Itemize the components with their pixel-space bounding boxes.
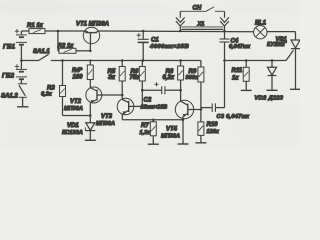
node A junction xyxy=(57,30,60,33)
chassis terminal of R11 xyxy=(241,89,252,91)
wire: VT2 base to VT3 collector line xyxy=(102,94,122,96)
external device CH wire with switch xyxy=(180,7,224,11)
junction VD2 top xyxy=(271,59,274,62)
resistor R4 xyxy=(87,61,93,88)
svg-text:0,047мк: 0,047мк xyxy=(229,44,251,50)
gate line to VS1 xyxy=(225,60,287,62)
junction R5 top xyxy=(121,59,124,62)
chassis terminal of VD2 xyxy=(267,89,278,91)
label R3 6,2k xyxy=(41,86,55,98)
transistor VT2 xyxy=(86,87,102,116)
label C2 value xyxy=(141,98,168,111)
chassis terminal of VT4 emitter xyxy=(178,143,189,145)
junction battery mid xyxy=(20,59,23,62)
label VD1 KS133A xyxy=(62,123,83,136)
zener diode VD1 xyxy=(85,116,95,140)
resistor R6 xyxy=(139,61,145,107)
chassis terminal of VS1 xyxy=(290,88,300,90)
top rail: VT1 collector to lamp xyxy=(99,30,254,33)
battery GB2 xyxy=(16,61,27,84)
wire: VT4 base to divider xyxy=(194,109,201,111)
svg-text:R2 1к: R2 1к xyxy=(58,44,75,50)
label R11 1k xyxy=(232,68,243,81)
chassis terminal of VD1 xyxy=(85,139,96,141)
junction VT4 base node xyxy=(200,108,203,111)
connector X1 link wires xyxy=(182,27,224,30)
svg-text:КУ201Г: КУ201Г xyxy=(267,42,287,48)
svg-text:VD1: VD1 xyxy=(67,123,79,129)
resistor R2 xyxy=(58,48,76,53)
svg-text:МП38А: МП38А xyxy=(64,106,83,112)
svg-text:75к: 75к xyxy=(130,75,141,81)
label R9 360k xyxy=(186,69,199,81)
battery GB1 xyxy=(16,31,27,61)
plus sign C1 xyxy=(137,33,141,37)
svg-text:1,2к: 1,2к xyxy=(140,130,152,136)
svg-text:СН: СН xyxy=(193,6,202,12)
svg-text:R10: R10 xyxy=(207,122,219,128)
svg-text:6,2к: 6,2к xyxy=(163,75,175,81)
capacitor C1 xyxy=(138,31,149,61)
svg-text:ГБ2: ГБ2 xyxy=(2,73,14,80)
label VT3 MP38A xyxy=(96,114,115,127)
chassis terminal of R10 xyxy=(195,142,206,144)
svg-text:6,2к: 6,2к xyxy=(41,92,53,98)
resistor R9 xyxy=(198,61,204,122)
svg-text:ГБ1: ГБ1 xyxy=(3,44,15,51)
resistor R11 xyxy=(243,61,249,91)
junction X1 right / C4 xyxy=(223,30,226,33)
wire: R2 to VT1 base xyxy=(76,50,90,52)
svg-text:100: 100 xyxy=(73,74,84,80)
label VT2 MP38A xyxy=(64,99,83,112)
thyristor VS1 xyxy=(286,40,300,89)
resistor R1 xyxy=(29,29,45,34)
junction R8 top xyxy=(179,59,182,62)
label R8 6,2k xyxy=(163,69,175,81)
label R10 120k xyxy=(207,122,220,135)
junction C4 bottom / gate line xyxy=(223,59,226,62)
wire: VT3 base riser xyxy=(134,105,143,107)
svg-text:КС133А: КС133А xyxy=(62,130,83,136)
svg-text:ЅА1.2: ЅА1.2 xyxy=(1,93,18,99)
junction VT4 emitter xyxy=(182,119,185,122)
wire: R3 to VD1 node xyxy=(63,115,91,117)
svg-text:Х1: Х1 xyxy=(197,21,205,27)
wire: R1 to node A xyxy=(45,30,58,32)
scan background tint xyxy=(0,0,312,148)
plus sign GB1 xyxy=(15,29,20,33)
svg-text:VT3: VT3 xyxy=(101,114,113,120)
svg-text:VT2: VT2 xyxy=(70,99,82,105)
svg-text:10мк×10В: 10мк×10В xyxy=(141,105,168,111)
switch SA1.1 xyxy=(21,54,48,60)
svg-text:МП38А: МП38А xyxy=(161,134,180,140)
svg-text:ЅА1.1: ЅА1.1 xyxy=(33,49,50,55)
resistor R7 xyxy=(150,120,156,144)
wire: right edge down to VS1 anode xyxy=(295,32,297,40)
resistor R3 xyxy=(60,61,66,116)
junction R2/base xyxy=(89,50,92,53)
svg-text:С2: С2 xyxy=(144,98,152,104)
junction VT2 base / R5 xyxy=(121,94,124,97)
svg-text:4600мк×25В: 4600мк×25В xyxy=(149,44,189,50)
connector pin left (chevron) xyxy=(176,11,185,31)
wire: VT3 emitter row xyxy=(122,119,183,121)
label R6 75k xyxy=(130,69,141,81)
wire: lamp to right edge xyxy=(267,31,296,33)
transistor VT1 xyxy=(83,27,99,51)
diode VD2 xyxy=(268,61,277,90)
svg-text:R7: R7 xyxy=(141,123,149,129)
lamp EL1 xyxy=(254,26,267,39)
svg-text:МП38А: МП38А xyxy=(96,121,115,127)
svg-text:R1 1к: R1 1к xyxy=(27,23,44,29)
svg-text:120к: 120к xyxy=(207,129,220,135)
svg-text:VT4: VT4 xyxy=(166,127,178,133)
resistor R5 xyxy=(119,61,125,100)
junction R3 top xyxy=(61,59,64,62)
chassis terminal of R7 xyxy=(148,143,159,145)
svg-text:R11: R11 xyxy=(232,68,243,74)
resistor R8 xyxy=(178,61,184,102)
svg-text:EL1: EL1 xyxy=(255,21,267,27)
svg-text:VT1 МП38А: VT1 МП38А xyxy=(76,21,109,27)
svg-text:Зк: Зк xyxy=(108,75,116,81)
junction C2 left xyxy=(141,89,144,92)
connector pin right (chevron) xyxy=(220,11,229,31)
capacitor C3 xyxy=(201,61,225,112)
label R7 1,2k xyxy=(140,123,152,136)
resistor R10 xyxy=(198,122,204,142)
junction C1 top xyxy=(142,30,145,33)
chassis terminal of SA1.2 xyxy=(17,106,29,108)
switch SA1.2 xyxy=(18,84,27,107)
junction C1/R6 xyxy=(142,59,145,62)
wire: node A to VT1 emitter xyxy=(58,30,85,32)
svg-text:С3 0,047мк: С3 0,047мк xyxy=(217,114,251,120)
junction C2 right / VT4 collector xyxy=(179,89,182,92)
plus sign C2 xyxy=(154,82,158,86)
capacitor C2 xyxy=(142,86,180,94)
label VT4 MP38A xyxy=(161,127,180,140)
svg-text:R4*: R4* xyxy=(72,68,83,74)
svg-text:С1: С1 xyxy=(151,38,159,44)
wire: GB1 top to R1 xyxy=(21,30,29,32)
junction R11 top xyxy=(245,59,248,62)
svg-text:VD2 Д223: VD2 Д223 xyxy=(255,95,284,101)
label C1 value xyxy=(149,38,189,51)
label VS1 KU201G xyxy=(267,37,288,48)
plus sign GB2 xyxy=(15,64,20,68)
transistor VT3 xyxy=(117,98,134,120)
mid rail: SA1.1 to R9 xyxy=(51,60,201,62)
label R4* 100 xyxy=(72,68,83,80)
label C4 value xyxy=(229,39,251,50)
junction VD1 top xyxy=(89,114,92,117)
svg-text:360к: 360к xyxy=(186,75,199,81)
wire: node A down to R2 xyxy=(57,31,59,51)
junction X1 left xyxy=(179,30,182,33)
junction R7 top xyxy=(152,119,155,122)
svg-text:1к: 1к xyxy=(232,75,239,81)
label R5 3k xyxy=(108,69,116,81)
junction base line crossing xyxy=(89,59,91,61)
capacitor C4 xyxy=(220,31,230,61)
transistor VT4 xyxy=(175,100,193,143)
